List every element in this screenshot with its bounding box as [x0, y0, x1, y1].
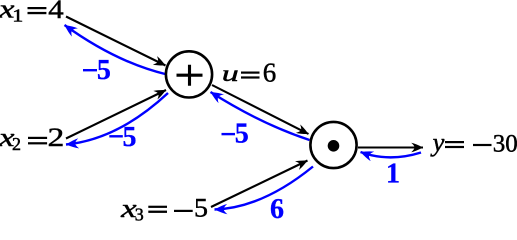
wire: blue gradient back-arrow y to dot node [361, 152, 422, 157]
svg-text:6: 6 [263, 57, 277, 87]
svg-text:3: 3 [135, 205, 144, 223]
wire: blue gradient back-arrow to x3 [215, 167, 314, 210]
svg-text:4: 4 [48, 0, 63, 24]
svg-text:5: 5 [194, 192, 208, 222]
label y=-30 [430, 127, 517, 157]
svg-text:5: 5 [235, 118, 249, 149]
svg-text:5: 5 [97, 55, 111, 86]
gradient label -5 (x2 path, blue) [109, 122, 136, 153]
label x2=2 [0, 122, 64, 154]
svg-text:2: 2 [48, 122, 65, 152]
node: plus (adder) circle [166, 51, 212, 97]
wire: blue gradient back-arrow dot node to plus node [211, 92, 310, 140]
gradient label -5 (u path, blue) [222, 118, 249, 149]
wire: blue gradient back-arrow to x1 [65, 25, 168, 75]
wire: blue gradient back-arrow to x2 [66, 93, 168, 145]
svg-text:1: 1 [12, 6, 23, 26]
wire: plus node to dot node (black arrow) [212, 85, 309, 134]
svg-text:y: y [430, 127, 445, 157]
node: multiply (dot) circle [310, 122, 356, 168]
label x1=4 [0, 0, 64, 26]
svg-text:2: 2 [12, 134, 21, 154]
svg-text:6: 6 [270, 194, 284, 222]
wire: x1 to plus node (black arrow) [66, 17, 166, 66]
gradient label -5 (x1 path, blue) [83, 55, 111, 86]
svg-text:u: u [222, 61, 239, 87]
wire: dot node to y (black arrow) [358, 146, 423, 148]
label x3=-5 [120, 192, 208, 224]
svg-text:1: 1 [386, 159, 400, 190]
svg-text:5: 5 [123, 122, 137, 153]
wire: x3 to dot node (black arrow) [211, 161, 308, 208]
wire: x2 to plus node (black arrow) [66, 90, 166, 139]
svg-text:30: 30 [493, 130, 517, 157]
label u=6 [222, 57, 276, 87]
